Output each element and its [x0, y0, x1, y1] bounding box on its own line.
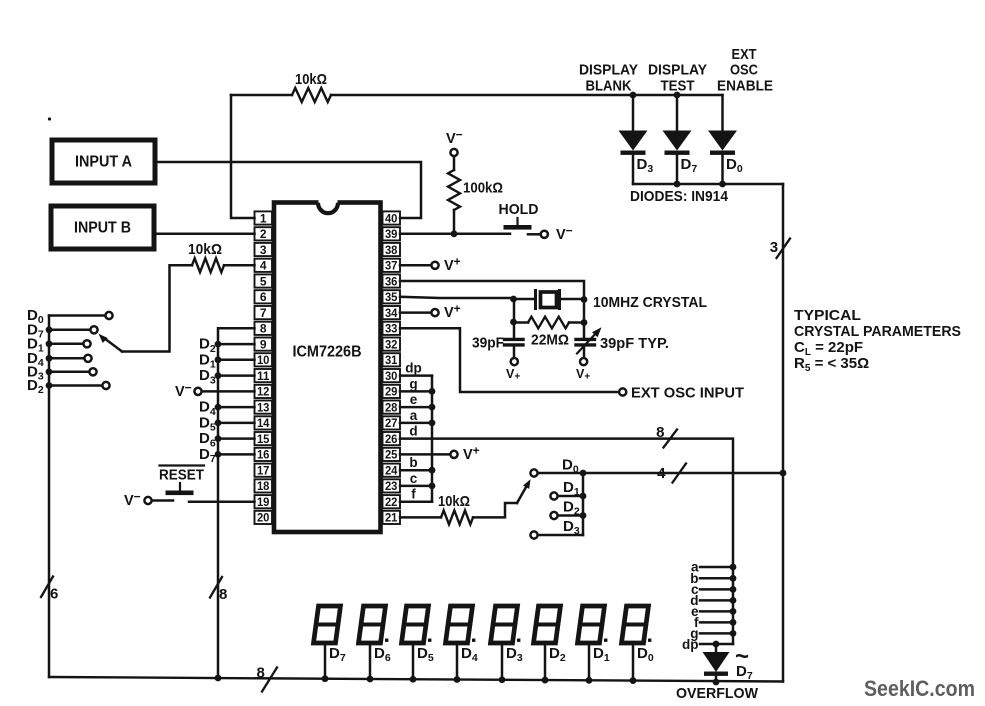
- svg-text:38: 38: [385, 243, 398, 257]
- svg-text:e: e: [410, 392, 418, 407]
- wire D0 bus 4: [538, 472, 783, 475]
- terminal V+ pin25: [400, 443, 480, 463]
- resistor 10k pin21: [441, 510, 473, 524]
- wires diode anodes: [633, 95, 723, 131]
- IC U1 left pin boxes 1-20: [255, 211, 273, 524]
- junction dots cathode rail: [674, 181, 726, 188]
- label RESET: [159, 466, 204, 484]
- label 100k: [463, 180, 503, 197]
- input connector INPUT A box: [52, 140, 155, 183]
- terminal V+ cap right: [576, 358, 590, 383]
- label display D0: [637, 645, 654, 664]
- diodes D3 D7 D0 IN914: [619, 131, 738, 185]
- resistor 10k top: [292, 88, 331, 102]
- wire RESET left contact: [152, 499, 173, 502]
- svg-text:36: 36: [385, 274, 398, 288]
- wires digit drive pins 9-16: [215, 341, 255, 458]
- wire segment bus pin26 right: [400, 439, 733, 644]
- display digit D0 seven-segment: [622, 606, 652, 684]
- svg-text:EXT: EXT: [732, 46, 757, 63]
- bus slash 8 vertical: [210, 577, 228, 603]
- stray mark: [48, 117, 51, 120]
- svg-text:22MΩ: 22MΩ: [531, 332, 569, 349]
- crystal Y1 10MHz: [514, 291, 584, 309]
- svg-text:HOLD: HOLD: [499, 201, 539, 218]
- label display D2: [549, 645, 566, 664]
- junction dot digit bus to bottom: [215, 675, 222, 682]
- junction dot pin39 100k: [451, 230, 458, 237]
- terminal V- RESET: [124, 490, 152, 510]
- svg-text:ENABLE: ENABLE: [717, 78, 773, 95]
- labels segment fanout a-g: [690, 560, 699, 641]
- svg-text:19: 19: [257, 495, 270, 509]
- capacitor 39pF left: [505, 339, 524, 357]
- terminal V+ pin37: [400, 254, 461, 274]
- label 39pF left: [472, 335, 504, 352]
- wire resistor to pin4: [224, 264, 255, 267]
- svg-text:1: 1: [260, 211, 267, 225]
- junction dots crystal nodes: [510, 296, 587, 303]
- svg-text:33: 33: [385, 322, 398, 336]
- terminal V- HOLD: [541, 224, 573, 244]
- display digit D5 seven-segment: [402, 606, 432, 683]
- bus slash 6: [41, 577, 59, 603]
- svg-text:10kΩ: 10kΩ: [295, 71, 327, 88]
- svg-text:f: f: [411, 487, 416, 502]
- terminal V- 100k: [446, 128, 463, 157]
- junction dots left digit bus: [46, 326, 53, 389]
- svg-text:8: 8: [260, 322, 267, 336]
- labels D3 D7 D0: [637, 156, 743, 175]
- junction dots 22M: [510, 319, 587, 326]
- switch S1 arm: [99, 334, 123, 352]
- label DISPLAY TEST: [648, 62, 707, 95]
- svg-text:10kΩ: 10kΩ: [188, 241, 222, 258]
- wire top rail right: [331, 94, 723, 97]
- wire resistor to pin39 rail: [453, 210, 456, 234]
- capacitor 39pF trim right: [576, 327, 602, 357]
- wire pin33 to ext osc: [400, 328, 618, 392]
- svg-text:BLANK: BLANK: [586, 78, 632, 95]
- svg-text:ICM7226B: ICM7226B: [293, 344, 362, 361]
- svg-text:16: 16: [257, 448, 270, 462]
- wire INPUT A to pin40: [155, 162, 421, 218]
- svg-text:34: 34: [385, 306, 398, 320]
- IC U1 ICM7226B body: [274, 200, 381, 533]
- diode D7 overflow: [703, 652, 730, 682]
- label 10k pin4: [188, 241, 222, 258]
- junction dot bus4 right: [780, 470, 787, 477]
- svg-text:22: 22: [385, 495, 398, 509]
- svg-text:14: 14: [257, 416, 270, 430]
- label 10k top: [295, 71, 327, 88]
- label 22M: [531, 332, 569, 349]
- svg-text:31: 31: [385, 353, 398, 367]
- svg-text:100kΩ: 100kΩ: [463, 180, 503, 197]
- label 10k pin21: [438, 493, 470, 510]
- mux contact D3: [530, 518, 583, 539]
- svg-text:2: 2: [260, 227, 267, 241]
- svg-text:25: 25: [385, 448, 398, 462]
- svg-text:26: 26: [385, 432, 398, 446]
- svg-text:28: 28: [385, 400, 398, 414]
- svg-text:INPUT B: INPUT B: [74, 220, 131, 237]
- wire pin35 to crystal left: [400, 297, 514, 298]
- wire right rail: [782, 184, 785, 682]
- svg-text:18: 18: [257, 479, 270, 493]
- label display D4: [461, 645, 478, 664]
- wire dp to overflow diode: [715, 644, 718, 652]
- svg-text:13: 13: [257, 400, 270, 414]
- mux contact D1: [550, 479, 586, 500]
- svg-text:7: 7: [260, 306, 267, 320]
- wire top rail left: [231, 94, 292, 97]
- terminal V- pin12: [175, 380, 202, 400]
- label D0 mux: [562, 457, 579, 476]
- svg-text:30: 30: [385, 369, 398, 383]
- svg-text:15: 15: [257, 432, 270, 446]
- watermark SeekIC.com: [864, 676, 975, 701]
- label OVERFLOW: [676, 685, 759, 702]
- svg-text:3: 3: [260, 243, 267, 257]
- svg-text:OVERFLOW: OVERFLOW: [676, 685, 759, 702]
- svg-text:CRYSTAL PARAMETERS: CRYSTAL PARAMETERS: [794, 323, 961, 340]
- svg-text:10MHZ CRYSTAL: 10MHZ CRYSTAL: [593, 294, 707, 311]
- svg-text:dp: dp: [682, 637, 699, 652]
- svg-text:17: 17: [257, 464, 270, 478]
- label EXT OSC INPUT: [631, 385, 744, 402]
- label display D7: [329, 645, 346, 664]
- wire V- to pin12: [202, 390, 254, 393]
- pushbutton RESET: [166, 483, 194, 495]
- svg-text:DIODES: IN914: DIODES: IN914: [630, 188, 729, 205]
- label 10MHZ CRYSTAL: [593, 294, 707, 311]
- terminal EXT OSC INPUT: [619, 388, 626, 395]
- svg-text:c: c: [410, 471, 418, 486]
- svg-text:SeekIC.com: SeekIC.com: [864, 676, 975, 701]
- labels D0 D7 D1 D4 D3 D2: [27, 307, 44, 396]
- svg-text:29: 29: [385, 385, 398, 399]
- switch S2 arm: [517, 479, 531, 503]
- svg-text:6: 6: [50, 586, 59, 603]
- svg-text:DISPLAY: DISPLAY: [579, 62, 638, 79]
- wire bottom bus: [49, 677, 783, 682]
- svg-text:9: 9: [260, 337, 267, 351]
- label tilde D7 overflow: [735, 643, 753, 682]
- svg-text:3: 3: [770, 239, 779, 256]
- pushbutton HOLD: [504, 218, 532, 230]
- svg-text:32: 32: [385, 337, 398, 351]
- label 39pF TYP.: [600, 335, 669, 352]
- wire diode cathode rail: [633, 183, 783, 186]
- label DIODES: IN914: [630, 188, 729, 205]
- wire INPUT B to pin2: [154, 233, 255, 236]
- input connector INPUT B box: [51, 206, 154, 249]
- label HOLD: [499, 201, 539, 218]
- junction dot overflow: [713, 679, 720, 686]
- svg-text:10kΩ: 10kΩ: [438, 493, 470, 510]
- svg-text:21: 21: [385, 511, 398, 525]
- svg-text:24: 24: [385, 464, 398, 478]
- resistor 100k: [448, 170, 460, 210]
- wire HOLD right contact: [528, 233, 540, 236]
- svg-text:8: 8: [257, 665, 266, 682]
- terminal V+ cap left: [506, 358, 520, 383]
- svg-text:DISPLAY: DISPLAY: [648, 62, 707, 79]
- svg-text:8: 8: [656, 424, 665, 441]
- svg-text:TEST: TEST: [661, 78, 695, 95]
- IC U1 right pin boxes 21-40: [383, 211, 401, 524]
- wire pin36 to crystal right: [400, 281, 584, 298]
- svg-text:4: 4: [260, 259, 267, 273]
- svg-text:37: 37: [385, 259, 398, 273]
- svg-text:20: 20: [257, 511, 270, 525]
- svg-text:39: 39: [385, 227, 398, 241]
- svg-text:INPUT A: INPUT A: [75, 154, 132, 171]
- wire selector common riser: [122, 265, 192, 351]
- wire dp fanout: [700, 641, 733, 648]
- label display D3: [506, 645, 523, 664]
- svg-text:40: 40: [385, 211, 398, 225]
- svg-text:8: 8: [219, 586, 228, 603]
- wire RESET to pin19: [189, 500, 255, 503]
- svg-text:27: 27: [385, 416, 398, 430]
- wire pin21 to resistor: [400, 516, 441, 519]
- terminal V+ pin34: [400, 302, 461, 322]
- wire resistor to switch S2: [473, 503, 517, 517]
- bus slash 4: [657, 464, 686, 483]
- label display D1: [593, 645, 610, 664]
- svg-text:EXT OSC INPUT: EXT OSC INPUT: [631, 385, 744, 402]
- svg-text:a: a: [410, 408, 418, 423]
- svg-text:RESET: RESET: [159, 467, 204, 484]
- labels segment pins dp g e a d b c f: [405, 361, 422, 502]
- svg-text:39pF: 39pF: [472, 335, 504, 352]
- junction dot D0: [580, 470, 587, 477]
- wire crystal left down: [513, 299, 516, 339]
- wire pin8 to digit bus: [218, 328, 255, 678]
- wire V- to resistor: [453, 157, 456, 170]
- wires digit select contacts D0 D7 D1 D4 D3 D2: [49, 312, 113, 389]
- svg-text:g: g: [409, 376, 417, 391]
- label EXT OSC ENABLE: [717, 46, 773, 95]
- wire mux bus vertical: [582, 473, 585, 535]
- junction dots top rail: [630, 92, 681, 99]
- svg-text:11: 11: [257, 369, 270, 383]
- svg-text:5: 5: [260, 274, 267, 288]
- svg-text:OSC: OSC: [730, 62, 758, 79]
- display digit D2 seven-segment: [534, 606, 561, 683]
- wire crystal right down: [583, 299, 586, 339]
- label DISPLAY BLANK: [579, 62, 638, 95]
- label dp fanout: [682, 637, 699, 652]
- display digit D4 seven-segment: [446, 606, 476, 683]
- switch S2 common contact: [530, 469, 537, 476]
- display digit D6 seven-segment: [359, 606, 389, 682]
- svg-text:dp: dp: [405, 361, 422, 376]
- resistor 10k pin4: [192, 258, 224, 272]
- display digit D3 seven-segment: [491, 606, 521, 683]
- junction dots segment collector: [429, 388, 436, 489]
- bus slash 3: [770, 239, 790, 259]
- note typical crystal parameters: [794, 307, 961, 374]
- display digit D7 seven-segment: [314, 606, 341, 682]
- wires segment fanout a-g: [700, 564, 736, 637]
- svg-text:6: 6: [260, 290, 267, 304]
- svg-text:10: 10: [257, 353, 270, 367]
- wire pin1 riser: [231, 95, 255, 218]
- mux contact D2: [550, 499, 586, 520]
- resistor 22M: [514, 317, 584, 329]
- wires segment pins to collector: [400, 376, 432, 502]
- label display D5: [417, 645, 434, 664]
- svg-text:35: 35: [385, 290, 398, 304]
- svg-text:12: 12: [257, 385, 270, 399]
- wire pin39 to HOLD: [400, 233, 510, 236]
- svg-text:23: 23: [385, 479, 398, 493]
- display digit D1 seven-segment: [578, 606, 608, 684]
- wire left digit bus vertical: [48, 316, 51, 678]
- svg-text:TYPICAL: TYPICAL: [794, 307, 861, 324]
- wire segment collector vertical: [431, 376, 434, 502]
- svg-text:39pF TYP.: 39pF TYP.: [600, 335, 669, 352]
- bus slash 8 bottom: [257, 665, 278, 692]
- svg-text:d: d: [409, 424, 417, 439]
- svg-text:b: b: [409, 455, 417, 470]
- svg-text:4: 4: [657, 465, 666, 482]
- labels digit drive D2 D1 D3 D4 D5 D6 D7: [199, 336, 216, 466]
- label display D6: [374, 645, 391, 664]
- bus slash 8 segment: [656, 424, 677, 448]
